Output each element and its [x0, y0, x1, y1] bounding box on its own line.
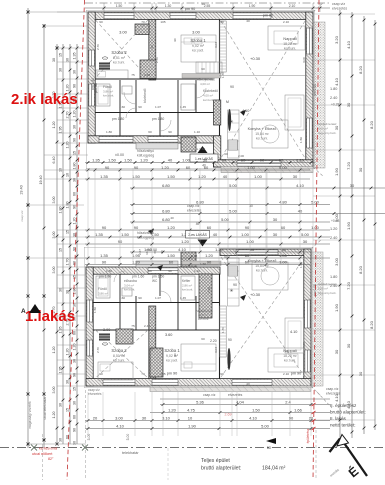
svg-text:10.9: 10.9 — [145, 249, 149, 255]
svg-text:30: 30 — [66, 380, 70, 384]
svg-text:19.40: 19.40 — [20, 185, 24, 195]
svg-text:pm 1.60: pm 1.60 — [132, 275, 144, 279]
svg-text:1.50: 1.50 — [108, 158, 117, 163]
svg-text:60: 60 — [73, 331, 77, 335]
svg-text:1.20: 1.20 — [132, 260, 141, 265]
svg-text:75: 75 — [131, 73, 135, 77]
svg-text:Fürdő: Fürdő — [103, 85, 112, 89]
svg-text:3.00: 3.00 — [115, 416, 124, 421]
svg-text:1.50: 1.50 — [132, 174, 141, 179]
svg-text:1.00: 1.00 — [182, 158, 191, 163]
svg-text:3.20: 3.20 — [334, 35, 339, 44]
svg-text:60: 60 — [73, 192, 77, 196]
svg-text:5.00: 5.00 — [311, 200, 320, 205]
svg-text:utcai telekhatár: utcai telekhatár — [43, 396, 47, 420]
svg-text:Szoba 2: Szoba 2 — [111, 348, 127, 353]
svg-text:4.10: 4.10 — [296, 183, 305, 188]
svg-text:90: 90 — [289, 416, 294, 421]
svg-text:1.20: 1.20 — [52, 412, 56, 419]
svg-text:ker.burk.: ker.burk. — [284, 359, 296, 363]
svg-text:3.00: 3.00 — [87, 434, 91, 441]
svg-text:1.07: 1.07 — [155, 105, 161, 109]
svg-text:105: 105 — [160, 20, 165, 24]
svg-text:90: 90 — [73, 138, 77, 142]
svg-text:90: 90 — [173, 353, 177, 357]
svg-text:3.00: 3.00 — [302, 57, 306, 63]
svg-text:Konyha + Étkező: Konyha + Étkező — [248, 126, 277, 131]
svg-text:pm 0.00: pm 0.00 — [313, 84, 317, 96]
svg-text:30: 30 — [273, 217, 278, 222]
svg-text:2.69: 2.69 — [225, 413, 232, 417]
svg-text:90: 90 — [222, 158, 227, 163]
svg-text:70: 70 — [141, 372, 145, 376]
svg-text:30: 30 — [334, 349, 339, 354]
svg-text:ker.burk.: ker.burk. — [113, 61, 125, 65]
svg-text:elvezetés: elvezetés — [187, 209, 202, 213]
svg-text:30: 30 — [293, 174, 298, 179]
svg-text:5.00: 5.00 — [229, 183, 238, 188]
svg-text:pm 1.80: pm 1.80 — [99, 275, 111, 279]
svg-text:30: 30 — [73, 125, 77, 129]
svg-text:ker.burk.: ker.burk. — [113, 359, 125, 363]
svg-text:70: 70 — [141, 20, 145, 24]
svg-text:✳: ✳ — [230, 288, 234, 293]
svg-text:90: 90 — [138, 296, 142, 300]
svg-text:60: 60 — [73, 415, 77, 419]
svg-text:15,84 m²: 15,84 m² — [255, 132, 269, 136]
svg-text:2.10: 2.10 — [283, 372, 289, 376]
svg-text:közlekedő: közlekedő — [143, 88, 147, 103]
svg-text:1.50: 1.50 — [116, 4, 123, 8]
svg-text:90: 90 — [245, 225, 250, 230]
svg-text:90: 90 — [168, 269, 172, 273]
svg-text:pm 90: pm 90 — [94, 83, 98, 93]
svg-text:90: 90 — [230, 85, 234, 89]
svg-text:90: 90 — [233, 283, 237, 287]
svg-text:5.00: 5.00 — [279, 165, 288, 170]
svg-text:±0.00: ±0.00 — [115, 153, 124, 157]
svg-text:utcai előkert: utcai előkert — [32, 452, 53, 456]
svg-text:4,00 m²: 4,00 m² — [203, 94, 213, 98]
svg-text:30: 30 — [59, 438, 63, 442]
svg-text:8,51 m²: 8,51 m² — [113, 354, 126, 358]
svg-text:90: 90 — [99, 372, 103, 376]
svg-text:1.20: 1.20 — [330, 227, 337, 231]
svg-text:ker.burk.: ker.burk. — [124, 288, 135, 292]
svg-text:1.00: 1.00 — [246, 239, 255, 244]
svg-text:1.70: 1.70 — [66, 259, 70, 266]
svg-text:3.04: 3.04 — [214, 347, 218, 353]
svg-text:ker.burk.: ker.burk. — [198, 317, 209, 321]
svg-text:90: 90 — [168, 130, 172, 134]
svg-text:1.20: 1.20 — [198, 174, 207, 179]
svg-text:4.75: 4.75 — [187, 408, 196, 413]
svg-text:3.00: 3.00 — [119, 30, 128, 35]
svg-text:1.80: 1.80 — [330, 87, 337, 91]
svg-text:1.45: 1.45 — [180, 296, 186, 300]
svg-text:90: 90 — [73, 428, 77, 432]
svg-text:60: 60 — [207, 225, 212, 230]
svg-text:1.35: 1.35 — [100, 174, 109, 179]
svg-text:1.20: 1.20 — [167, 225, 176, 230]
svg-text:csap.víz: csap.víz — [326, 387, 339, 391]
svg-text:3.10: 3.10 — [162, 416, 171, 421]
svg-text:hőszivattyú: hőszivattyú — [137, 149, 154, 153]
svg-text:5.00: 5.00 — [229, 209, 238, 214]
svg-text:Szoba 2: Szoba 2 — [111, 50, 127, 55]
svg-text:+0.30: +0.30 — [250, 56, 261, 61]
svg-text:30: 30 — [346, 343, 351, 348]
svg-text:1.20: 1.20 — [296, 158, 305, 163]
svg-text:30: 30 — [249, 204, 253, 208]
svg-text:1.66: 1.66 — [294, 408, 303, 413]
svg-text:1.60: 1.60 — [119, 296, 125, 300]
svg-text:3.00: 3.00 — [52, 387, 56, 394]
svg-text:pm 90: pm 90 — [167, 372, 178, 376]
svg-text:1.80: 1.80 — [59, 207, 63, 214]
svg-text:nettó terület:: nettó terület: — [330, 423, 356, 428]
svg-text:csap.víz: csap.víz — [203, 393, 216, 397]
svg-text:90: 90 — [250, 247, 255, 252]
svg-text:5.00: 5.00 — [221, 217, 230, 222]
svg-text:2.40: 2.40 — [330, 284, 337, 288]
svg-text:A: A — [21, 308, 26, 315]
svg-text:1.90: 1.90 — [346, 221, 351, 230]
svg-text:csap.víz: csap.víz — [187, 204, 200, 208]
svg-text:+0.28: +0.28 — [331, 219, 340, 223]
svg-text:3.00: 3.00 — [52, 232, 56, 239]
svg-text:30: 30 — [358, 371, 363, 376]
svg-text:2.70: 2.70 — [96, 44, 100, 50]
svg-text:3.00: 3.00 — [302, 342, 306, 348]
svg-text:30: 30 — [73, 178, 77, 182]
svg-text:1.20: 1.20 — [205, 253, 214, 258]
svg-text:30: 30 — [66, 58, 70, 62]
svg-text:1.80: 1.80 — [73, 163, 77, 170]
svg-text:60: 60 — [186, 165, 191, 170]
svg-text:10: 10 — [150, 45, 154, 49]
svg-text:bruttó alapterület:: bruttó alapterület: — [201, 466, 241, 472]
svg-text:2.40: 2.40 — [330, 236, 337, 240]
svg-text:75: 75 — [131, 324, 135, 328]
svg-text:B.08: B.08 — [191, 254, 198, 258]
svg-text:Fürdő: Fürdő — [98, 287, 107, 291]
svg-text:19.40: 19.40 — [39, 176, 43, 185]
svg-text:1.50: 1.50 — [252, 408, 261, 413]
svg-text:60: 60 — [245, 253, 250, 258]
svg-text:60: 60 — [281, 225, 286, 230]
svg-text:magassági vezeték: magassági vezeték — [28, 401, 32, 429]
svg-text:40: 40 — [168, 158, 173, 163]
svg-text:1.35: 1.35 — [95, 232, 104, 237]
svg-text:1.90: 1.90 — [249, 4, 256, 8]
svg-text:105: 105 — [160, 372, 165, 376]
svg-text:30: 30 — [73, 401, 77, 405]
svg-text:90: 90 — [105, 165, 110, 170]
svg-text:8.20: 8.20 — [369, 320, 374, 329]
svg-text:2.20: 2.20 — [210, 339, 217, 343]
svg-text:1.56: 1.56 — [93, 307, 97, 313]
svg-text:BD: BD — [267, 446, 272, 450]
svg-text:előszoba: előszoba — [124, 279, 137, 283]
svg-text:30: 30 — [142, 416, 147, 421]
svg-text:1.58: 1.58 — [200, 262, 206, 266]
svg-text:ker.burk.: ker.burk. — [203, 98, 214, 102]
svg-text:3.00: 3.00 — [103, 328, 110, 332]
svg-text:pm 1.80: pm 1.80 — [152, 117, 164, 121]
svg-text:90: 90 — [102, 225, 107, 230]
svg-text:1.00: 1.00 — [279, 260, 288, 265]
svg-text:82°: 82° — [48, 457, 54, 461]
svg-text:M: M — [226, 100, 229, 104]
svg-text:1.10: 1.10 — [194, 130, 200, 134]
svg-text:1.35: 1.35 — [92, 158, 101, 163]
svg-text:1.50: 1.50 — [121, 232, 130, 237]
svg-text:1.70: 1.70 — [221, 72, 225, 78]
svg-text:30: 30 — [73, 70, 77, 74]
svg-text:1.35: 1.35 — [100, 253, 109, 258]
svg-text:Konyha + Étkező: Konyha + Étkező — [248, 258, 277, 263]
svg-text:90: 90 — [207, 260, 212, 265]
svg-text:4.10: 4.10 — [178, 247, 187, 252]
svg-text:40: 40 — [223, 174, 228, 179]
svg-text:3.00: 3.00 — [52, 197, 56, 204]
svg-text:1.30: 1.30 — [165, 4, 172, 8]
svg-text:9,02 m²: 9,02 m² — [192, 44, 205, 48]
svg-text:60: 60 — [201, 337, 205, 341]
svg-text:1.90: 1.90 — [188, 424, 197, 429]
svg-text:60: 60 — [204, 165, 209, 170]
svg-text:1.20: 1.20 — [52, 122, 56, 129]
svg-text:pm 90: pm 90 — [263, 14, 274, 18]
svg-text:2.ik lakás: 2.ik lakás — [11, 91, 78, 108]
svg-text:30: 30 — [303, 239, 308, 244]
svg-text:30: 30 — [203, 158, 208, 163]
svg-text:csap.víz: csap.víz — [20, 210, 24, 222]
svg-text:elvezetés: elvezetés — [228, 393, 243, 397]
svg-text:1.95: 1.95 — [59, 127, 63, 134]
svg-text:1.20: 1.20 — [66, 349, 70, 356]
svg-text:90: 90 — [228, 338, 232, 342]
svg-text:elvezetés: elvezetés — [88, 392, 102, 396]
svg-text:90: 90 — [118, 239, 123, 244]
svg-text:ker.burk.: ker.burk. — [284, 47, 296, 51]
svg-text:3,86 m²: 3,86 m² — [98, 292, 108, 296]
svg-text:1.00: 1.00 — [254, 174, 263, 179]
svg-text:6.80: 6.80 — [162, 209, 171, 214]
svg-text:2.40: 2.40 — [144, 73, 150, 77]
svg-text:2.70: 2.70 — [66, 112, 70, 119]
svg-text:15: 15 — [73, 387, 77, 391]
svg-text:30: 30 — [358, 167, 363, 172]
svg-text:Szoba 1: Szoba 1 — [164, 348, 180, 353]
svg-text:60: 60 — [279, 158, 284, 163]
svg-text:90: 90 — [73, 205, 77, 209]
svg-text:II. lakás: II. lakás — [330, 416, 347, 421]
svg-text:30: 30 — [59, 288, 63, 292]
svg-text:pm 90: pm 90 — [291, 372, 302, 376]
svg-text:4,00 m²: 4,00 m² — [200, 82, 210, 86]
svg-text:2-es LAKÁS: 2-es LAKÁS — [188, 233, 207, 237]
svg-text:1.50: 1.50 — [167, 174, 176, 179]
svg-text:40: 40 — [298, 209, 303, 214]
svg-text:8,60 m²: 8,60 m² — [318, 287, 328, 291]
svg-text:1.20: 1.20 — [168, 408, 177, 413]
svg-text:30: 30 — [73, 441, 77, 445]
svg-text:+0.28: +0.28 — [331, 103, 340, 107]
svg-text:1.20: 1.20 — [73, 111, 77, 118]
svg-text:függ.árny.burk.: függ.árny.burk. — [318, 131, 337, 135]
svg-text:1.80: 1.80 — [73, 288, 77, 295]
svg-text:Teljes épület: Teljes épület — [201, 458, 230, 464]
svg-text:1.95: 1.95 — [59, 367, 63, 374]
svg-text:1.50: 1.50 — [167, 253, 176, 258]
svg-text:ker.padl.: ker.padl. — [192, 49, 204, 53]
svg-text:3.00: 3.00 — [192, 30, 201, 35]
svg-text:2.10: 2.10 — [283, 20, 289, 24]
svg-text:10: 10 — [188, 416, 193, 421]
svg-text:4.10: 4.10 — [334, 77, 339, 86]
svg-text:184,04 m²: 184,04 m² — [262, 466, 286, 472]
svg-text:40: 40 — [246, 19, 250, 23]
svg-text:ker.burk.: ker.burk. — [256, 137, 268, 141]
svg-text:4.10: 4.10 — [116, 424, 125, 429]
svg-text:1.20: 1.20 — [66, 142, 70, 149]
svg-text:1.10: 1.10 — [194, 269, 200, 273]
svg-text:WC: WC — [152, 279, 158, 283]
svg-text:60: 60 — [201, 67, 205, 71]
svg-text:8,60 m²: 8,60 m² — [318, 127, 328, 131]
svg-text:20: 20 — [309, 416, 314, 421]
svg-text:II. épületrész: II. épületrész — [330, 403, 357, 408]
svg-text:90: 90 — [220, 372, 224, 376]
svg-text:60: 60 — [245, 260, 250, 265]
svg-text:1.20: 1.20 — [161, 165, 170, 170]
svg-text:Kéfler: Kéfler — [182, 279, 191, 283]
svg-text:30: 30 — [66, 290, 70, 294]
svg-text:1.56: 1.56 — [299, 262, 303, 268]
svg-text:60: 60 — [224, 152, 228, 156]
svg-text:60: 60 — [282, 247, 287, 252]
svg-text:40: 40 — [170, 216, 174, 220]
svg-text:90: 90 — [134, 165, 139, 170]
svg-text:90: 90 — [260, 158, 265, 163]
svg-text:+0.30: +0.30 — [250, 292, 261, 297]
svg-text:6.80: 6.80 — [162, 183, 171, 188]
svg-text:1.20: 1.20 — [73, 344, 77, 351]
svg-text:3.00: 3.00 — [126, 434, 130, 441]
svg-text:telekhatár: telekhatár — [122, 451, 139, 455]
svg-text:30: 30 — [52, 58, 56, 62]
svg-text:90: 90 — [73, 373, 77, 377]
svg-text:pm 1.50: pm 1.50 — [152, 275, 164, 279]
svg-text:90: 90 — [160, 250, 164, 254]
svg-text:15: 15 — [59, 53, 63, 57]
svg-text:40: 40 — [246, 382, 250, 386]
svg-text:1.20: 1.20 — [140, 158, 149, 163]
svg-text:1.20: 1.20 — [181, 239, 190, 244]
svg-text:ker.burk.: ker.burk. — [256, 269, 268, 273]
svg-text:Szoba 1: Szoba 1 — [190, 38, 206, 43]
svg-text:1.35: 1.35 — [73, 53, 77, 60]
svg-text:15: 15 — [59, 248, 63, 252]
svg-text:2.40: 2.40 — [144, 324, 150, 328]
svg-text:90: 90 — [102, 260, 107, 265]
svg-text:90: 90 — [73, 247, 77, 251]
svg-text:ker.burk.: ker.burk. — [103, 94, 114, 98]
svg-text:2.39: 2.39 — [207, 287, 211, 293]
svg-text:elvezetés: elvezetés — [332, 7, 347, 11]
svg-text:csap.víz: csap.víz — [332, 2, 345, 6]
svg-text:10: 10 — [66, 173, 70, 177]
svg-text:30: 30 — [59, 403, 63, 407]
svg-text:kült.egység: kült.egység — [137, 236, 154, 240]
svg-text:1.20: 1.20 — [73, 218, 77, 225]
svg-text:1.80: 1.80 — [330, 275, 337, 279]
svg-text:Nappali: Nappali — [283, 36, 297, 41]
svg-text:15: 15 — [66, 408, 70, 412]
svg-text:G 1.50: G 1.50 — [196, 147, 205, 151]
svg-text:5.00: 5.00 — [301, 232, 310, 237]
svg-text:4.80: 4.80 — [279, 200, 288, 205]
svg-text:3.00: 3.00 — [334, 257, 339, 266]
svg-text:60: 60 — [148, 269, 152, 273]
svg-text:8.20: 8.20 — [358, 265, 363, 274]
svg-text:5.00: 5.00 — [261, 424, 270, 429]
svg-text:30: 30 — [350, 183, 355, 188]
svg-text:ker.burk.: ker.burk. — [182, 288, 193, 292]
svg-text:40: 40 — [213, 232, 218, 237]
svg-text:kült.egység: kült.egység — [137, 154, 154, 158]
svg-text:1.45: 1.45 — [180, 105, 186, 109]
svg-text:2.40: 2.40 — [330, 96, 337, 100]
svg-text:60: 60 — [241, 158, 246, 163]
svg-text:8,51 m²: 8,51 m² — [113, 56, 126, 60]
svg-text:3.00: 3.00 — [52, 267, 56, 274]
svg-text:10: 10 — [150, 348, 154, 352]
svg-text:30: 30 — [73, 359, 77, 363]
svg-text:1.80: 1.80 — [106, 130, 112, 134]
svg-text:pm 1.80: pm 1.80 — [112, 117, 124, 121]
svg-text:90: 90 — [73, 84, 77, 88]
svg-text:90: 90 — [134, 225, 139, 230]
svg-text:90: 90 — [99, 20, 103, 24]
svg-text:2.10: 2.10 — [289, 4, 296, 8]
svg-text:kerítésvonal: kerítésvonal — [39, 447, 58, 451]
svg-text:pm 90: pm 90 — [185, 7, 196, 11]
svg-text:1.07: 1.07 — [155, 296, 161, 300]
svg-text:1.80: 1.80 — [106, 269, 112, 273]
svg-text:1.00: 1.00 — [279, 253, 288, 258]
svg-text:18,20 m²: 18,20 m² — [283, 42, 297, 46]
svg-text:18,20 m²: 18,20 m² — [283, 354, 297, 358]
svg-text:1.00: 1.00 — [311, 225, 320, 230]
svg-text:5.36: 5.36 — [196, 400, 205, 405]
svg-text:Műhelyterasz: Műhelyterasz — [196, 78, 215, 82]
svg-text:90: 90 — [173, 38, 177, 42]
svg-text:3.60: 3.60 — [165, 333, 172, 337]
svg-text:60: 60 — [148, 130, 152, 134]
svg-text:3.04: 3.04 — [214, 42, 218, 48]
svg-text:30: 30 — [346, 102, 351, 107]
svg-text:1.50: 1.50 — [124, 158, 133, 163]
svg-text:15: 15 — [73, 151, 77, 155]
svg-text:1.90: 1.90 — [334, 167, 339, 176]
svg-text:ker.padl.: ker.padl. — [166, 359, 178, 363]
svg-text:függ.árny.burk.: függ.árny.burk. — [318, 291, 337, 295]
svg-text:8.20: 8.20 — [358, 65, 363, 74]
svg-text:1.00: 1.00 — [241, 232, 250, 237]
